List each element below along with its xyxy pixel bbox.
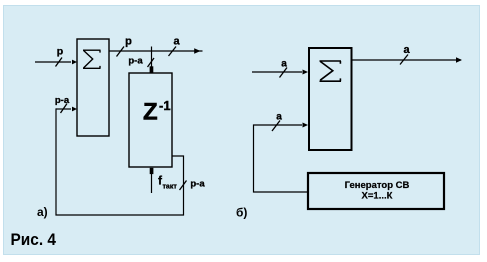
svg-text:а: а — [173, 36, 180, 48]
wire: S2 output — [351, 59, 461, 61]
svg-text:Z: Z — [143, 99, 158, 126]
svg-text:б): б) — [236, 206, 247, 220]
svg-text:Генератор СВ: Генератор СВ — [345, 180, 410, 191]
arrowhead output — [456, 57, 462, 63]
wire: input p into S1 — [35, 61, 71, 63]
wire: feedback into S1 lower input — [56, 108, 71, 110]
svg-text:Х=1...К: Х=1...К — [362, 191, 393, 202]
svg-text:а: а — [403, 44, 410, 56]
wire: Z output step right — [56, 108, 184, 215]
summator block S1 — [77, 39, 109, 136]
arrowhead feedback into S1 — [72, 107, 77, 112]
svg-text:р-а: р-а — [128, 56, 143, 67]
svg-text:такт: такт — [163, 184, 178, 191]
arrowhead into S2 lower input — [303, 123, 309, 128]
wire: input a into S2 — [252, 71, 302, 73]
svg-text:а): а) — [37, 205, 48, 219]
delay block Z^-1 — [129, 73, 172, 167]
slash on feedback input — [61, 104, 68, 114]
slash on input a — [280, 68, 288, 78]
arrowhead into Z top — [150, 66, 154, 73]
slash on wire a — [169, 47, 177, 57]
svg-text:-1: -1 — [159, 98, 171, 113]
sigma symbol of S1 — [83, 50, 101, 68]
svg-text:р-а: р-а — [190, 179, 205, 190]
svg-text:Рис. 4: Рис. 4 — [11, 230, 57, 249]
svg-text:р-а: р-а — [55, 95, 70, 106]
svg-text:а: а — [281, 59, 287, 70]
slash on branch — [148, 58, 155, 67]
sigma symbol of S2 — [320, 61, 342, 81]
arrowhead f_takt up into Z bottom — [150, 168, 154, 174]
svg-text:р: р — [57, 46, 63, 58]
wire: S1 output to the right — [109, 50, 203, 52]
slash on lower input — [272, 121, 280, 132]
slash on output — [400, 55, 408, 65]
wire: branch down into Z block — [151, 47, 153, 69]
svg-text:р: р — [125, 36, 132, 48]
generator block — [308, 173, 444, 209]
arrowhead input a — [303, 70, 309, 75]
slash on input p — [56, 58, 63, 67]
svg-text:а: а — [276, 112, 282, 123]
slash on output p — [117, 47, 125, 57]
wire: generator to S2 lower input — [254, 125, 309, 192]
arrowhead output a — [194, 48, 200, 53]
wire: f_takt clock input — [151, 172, 153, 193]
summator block S2 — [309, 48, 352, 150]
arrowhead input p — [72, 60, 77, 65]
slash on feedback vertical — [180, 181, 187, 191]
